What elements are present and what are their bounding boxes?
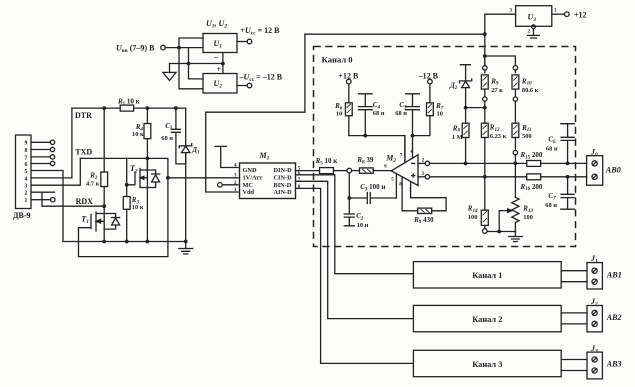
svg-text:500: 500 [522,133,532,140]
svg-text:R5 10 к: R5 10 к [315,157,339,166]
svg-text:68 н: 68 н [546,145,558,152]
svg-text:68 н: 68 н [373,110,385,117]
svg-text:6.23 к: 6.23 к [490,133,507,140]
svg-text:Канал 1: Канал 1 [472,271,502,280]
svg-text:R16 200: R16 200 [520,183,543,192]
svg-text:100: 100 [523,214,533,221]
svg-text:+: + [217,65,222,74]
svg-text:10 к: 10 к [132,131,144,138]
svg-text:9: 9 [25,141,28,147]
svg-text:1V/Атт: 1V/Атт [243,175,264,182]
svg-text:+12 В: +12 В [338,71,359,80]
svg-text:8: 8 [25,148,28,154]
svg-text:Канал 0: Канал 0 [322,55,353,65]
svg-text:Канал 2: Канал 2 [472,315,502,324]
svg-text:МС: МС [243,182,254,189]
svg-text:10: 10 [437,111,443,118]
svg-text:4.7 к: 4.7 к [86,181,100,188]
svg-text:Канал 3: Канал 3 [472,360,502,369]
svg-text:6: 6 [25,162,28,168]
svg-text:R9 430: R9 430 [413,216,434,225]
svg-text:7: 7 [25,155,28,161]
svg-text:1: 1 [25,198,28,204]
svg-text:5: 5 [25,169,28,175]
svg-text:10 к: 10 к [132,204,144,211]
svg-text:100: 100 [468,214,478,221]
svg-text:2: 2 [25,191,28,197]
svg-text:1 М: 1 М [452,134,463,141]
svg-text:GND: GND [243,167,257,174]
svg-text:80.6 к: 80.6 к [522,87,539,94]
svg-text:4: 4 [25,176,28,182]
svg-text:DIN-D: DIN-D [274,167,293,174]
svg-text:+Ucc = 12 В: +Ucc = 12 В [240,26,280,37]
svg-text:C3 100 н: C3 100 н [360,183,385,192]
svg-text:RDX: RDX [76,197,94,206]
svg-text:R8 39: R8 39 [356,156,373,165]
svg-text:R15 200: R15 200 [520,151,543,160]
svg-text:–Ucc = –12 В: –Ucc = –12 В [239,73,283,84]
svg-text:+12: +12 [574,10,587,19]
svg-text:68 н: 68 н [395,110,407,117]
svg-text:–12 В: –12 В [418,71,439,80]
svg-text:АВ2: АВ2 [606,313,622,322]
svg-text:BIN-D: BIN-D [274,182,292,189]
svg-text:R1 10 к: R1 10 к [117,98,141,107]
svg-text:TXD: TXD [75,148,92,157]
svg-text:10: 10 [336,111,342,118]
svg-text:АВ0: АВ0 [605,166,621,175]
svg-text:AIN-D: AIN-D [274,189,293,196]
svg-text:U1, U2: U1, U2 [206,19,227,30]
svg-text:Vdd: Vdd [243,189,255,196]
svg-text:ДВ-9: ДВ-9 [13,211,31,220]
svg-text:27 к: 27 к [491,87,503,94]
svg-text:АВ1: АВ1 [606,271,622,280]
svg-text:3: 3 [25,184,28,190]
svg-text:CIN-D: CIN-D [274,175,293,182]
svg-text:АВ3: АВ3 [606,360,622,369]
svg-text:68 н: 68 н [545,202,557,209]
svg-text:DTR: DTR [75,111,92,120]
svg-text:10 н: 10 н [357,222,369,229]
svg-text:68 н: 68 н [161,135,173,142]
